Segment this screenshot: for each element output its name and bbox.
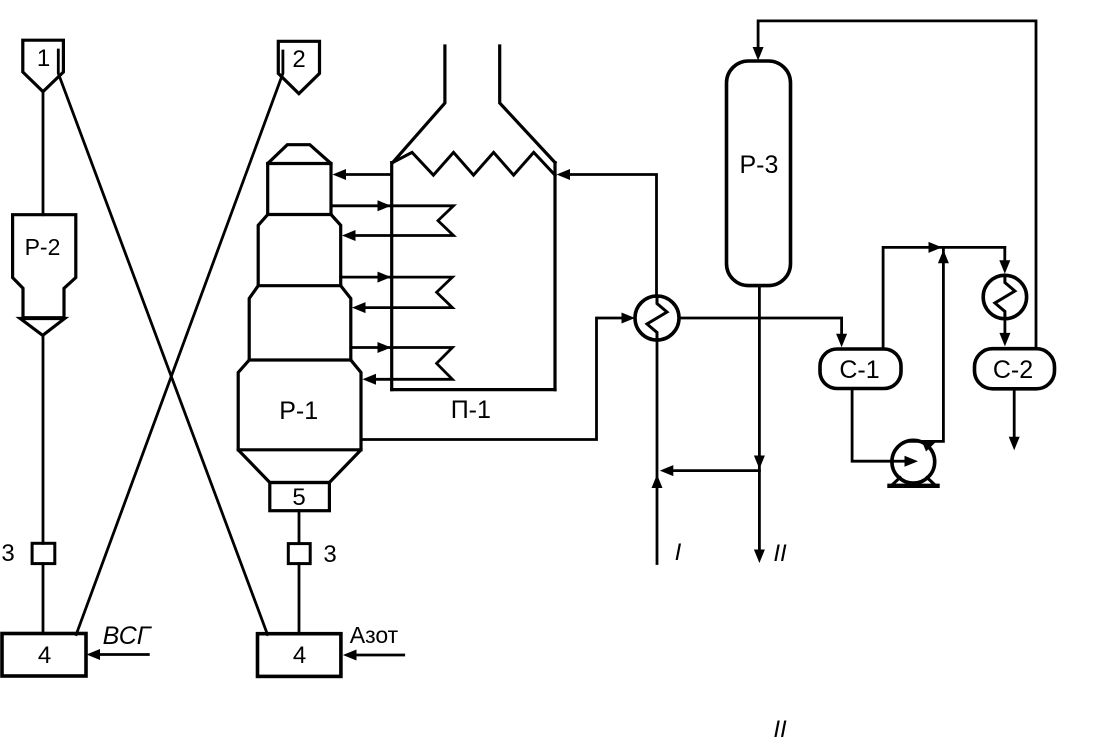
- wire R-2 to valve 3 left: [42, 335, 45, 543]
- furnace coil zigzag: [393, 152, 555, 175]
- wire recycle branch to riser with arrows: [660, 456, 765, 477]
- heat exchanger T1: [635, 296, 679, 340]
- svg-text:4: 4: [38, 642, 51, 669]
- furnace P-1 chimney: [393, 46, 555, 163]
- box 4 left: [2, 634, 86, 677]
- wire exchanger top to furnace inlet with arrow: [557, 169, 657, 296]
- wire C-2 bottom outlet with arrow: [1009, 389, 1020, 450]
- svg-text:5: 5: [292, 484, 305, 511]
- valve 3 mid: [288, 541, 336, 568]
- svg-text:Р-1: Р-1: [279, 397, 318, 425]
- arrow Azot into box 4 mid: [343, 650, 404, 661]
- reactor R-1 tower: [238, 145, 361, 483]
- coil flag 2 with wires stage2: [341, 272, 453, 314]
- wire exchanger X2 to C-2 with arrow: [999, 319, 1010, 347]
- box 4 mid: [258, 634, 341, 677]
- svg-text:Р-2: Р-2: [25, 234, 61, 260]
- wire R-3 bottom outlet to stream II: [754, 286, 787, 567]
- arrow VSG into box 4 left: [87, 649, 149, 660]
- svg-text:Р-3: Р-3: [739, 151, 778, 179]
- svg-text:2: 2: [292, 46, 305, 73]
- column R-3: [727, 61, 791, 286]
- wire furnace outlet to reactor top with arrow: [333, 169, 392, 180]
- wire C-1 overhead to junction with arrow: [883, 242, 1005, 349]
- svg-text:1: 1: [37, 45, 50, 72]
- wire C-1 bottom to pump: [852, 389, 892, 461]
- wire exchanger T1 to C-1 with arrow: [679, 318, 847, 347]
- hopper 1: [23, 40, 64, 91]
- svg-text:3: 3: [1, 540, 14, 567]
- wire exchanger T1 to stream I riser: [652, 340, 682, 566]
- wire valve3 to left box 4: [42, 564, 45, 634]
- wire pump discharge to junction with arrows: [907, 247, 949, 451]
- svg-text:С-2: С-2: [993, 356, 1033, 384]
- svg-text:II: II: [773, 540, 787, 567]
- hopper 2: [278, 41, 319, 93]
- svg-text:ВСГ: ВСГ: [103, 622, 153, 650]
- wire valve3 to mid box 4: [298, 564, 301, 634]
- furnace P-1 body: [392, 163, 555, 424]
- separator C-1: [820, 349, 901, 389]
- svg-text:Азот: Азот: [350, 622, 399, 648]
- pump N-1: [890, 440, 938, 485]
- wire recycle top line into R-3 with arrow: [753, 21, 1036, 348]
- svg-text:II: II: [773, 716, 787, 743]
- svg-text:I: I: [675, 539, 682, 566]
- wire hopper2 diagonal to left box 4: [76, 51, 283, 635]
- svg-text:П-1: П-1: [451, 396, 491, 424]
- wire junction to exchanger X2 with arrow: [999, 247, 1010, 273]
- coil flag 1 with wires stage1: [331, 200, 454, 241]
- vessel R-2: [13, 215, 76, 336]
- svg-text:3: 3: [323, 541, 336, 568]
- wire reactor outlet to exchanger T1 with arrow: [361, 313, 635, 440]
- wire hopper1 to R-2: [42, 92, 45, 215]
- svg-text:С-1: С-1: [839, 356, 879, 384]
- box 5: [270, 483, 330, 512]
- valve 3 left: [1, 540, 54, 567]
- wire hopper1 diagonal to mid box 4: [58, 50, 267, 635]
- wire box5 to valve 3 mid: [298, 511, 301, 544]
- coil flag 3 with wires stage3: [351, 342, 453, 385]
- separator C-2: [975, 349, 1055, 389]
- svg-text:4: 4: [293, 642, 306, 669]
- heat exchanger X2: [983, 275, 1026, 318]
